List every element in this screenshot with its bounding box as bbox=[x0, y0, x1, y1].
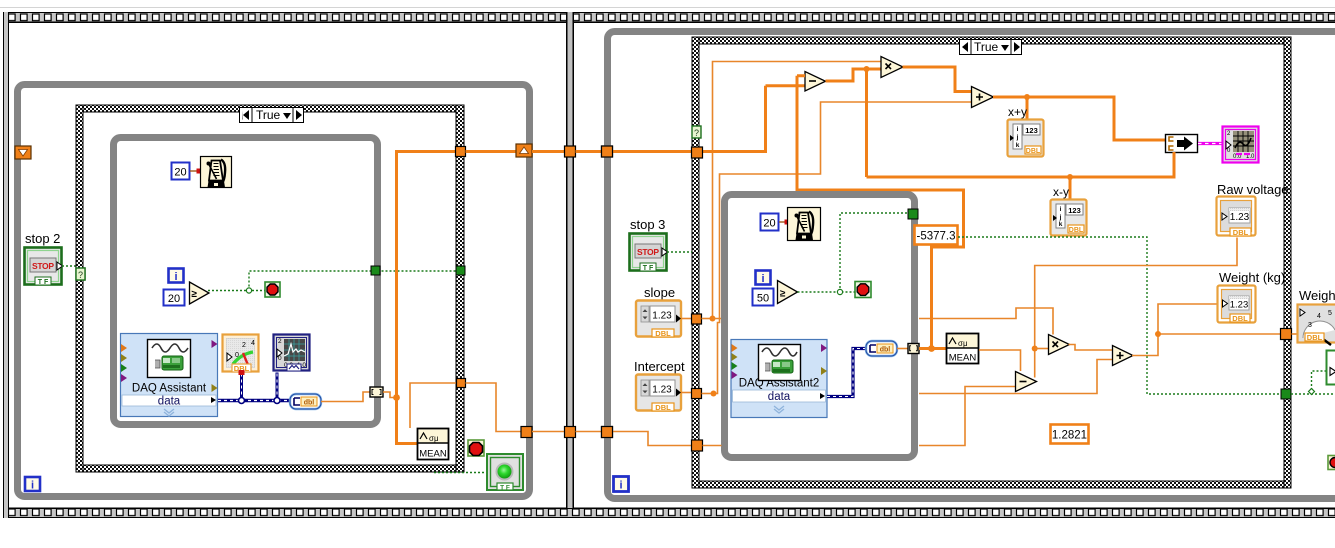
indexing tunnel on inner loop 1 bbox=[370, 387, 383, 397]
W1 wire from left frame into subtract2 bbox=[919, 387, 1015, 446]
svg-text:50: 50 bbox=[757, 293, 769, 305]
svg-text:i: i bbox=[31, 480, 34, 492]
junction dot MEAN2 input bbox=[928, 345, 935, 352]
add node 1 bbox=[972, 87, 994, 108]
svg-text:2: 2 bbox=[278, 338, 282, 345]
svg-text:Intercept: Intercept bbox=[634, 359, 685, 374]
XY graph terminal bbox=[1223, 127, 1259, 163]
case selector ? terminal (left case) bbox=[76, 268, 85, 280]
svg-text:0: 0 bbox=[278, 355, 282, 362]
svg-text:DBL: DBL bbox=[655, 403, 671, 412]
wire pill to indexing tunnel (loop 2) bbox=[897, 348, 908, 350]
svg-text:i: i bbox=[1017, 126, 1019, 133]
-5377.3 constant bbox=[915, 226, 958, 245]
wait ms metronome icon (loop 1) bbox=[201, 157, 232, 188]
Intercept wire to junction bbox=[702, 393, 714, 395]
wire down to x+y bbox=[1026, 97, 1029, 119]
conditional (stop) terminal loop 2 bbox=[855, 282, 871, 298]
flat sequence bottom film strip bbox=[8, 508, 1335, 519]
junction dot at 1070,177 and drop to x-y bbox=[1067, 174, 1073, 180]
x-y array indicator bbox=[1051, 200, 1087, 236]
constant 20 (wait ms, loop 1) bbox=[172, 163, 190, 180]
stop 2 button bbox=[25, 248, 63, 287]
svg-text:DBL: DBL bbox=[1233, 228, 1249, 237]
constant 20 (compare, loop 1) bbox=[164, 290, 185, 306]
slope junction dot bbox=[710, 316, 716, 322]
add node 2 bbox=[1113, 346, 1134, 366]
Weight gauge terminal (clipped at edge) bbox=[1298, 305, 1335, 346]
boolean dotted from -5377.3 across and down bbox=[958, 237, 1281, 394]
svg-text:DAQ Assistant: DAQ Assistant bbox=[132, 383, 207, 395]
orange wire pill to indexing tunnel (loop 1) bbox=[321, 392, 370, 402]
conditional (stop) terminal loop 1 bbox=[265, 282, 280, 297]
svg-text:DBL: DBL bbox=[1232, 314, 1248, 323]
svg-text:5: 5 bbox=[1328, 310, 1332, 317]
add1 output wire to merge bbox=[993, 97, 1165, 140]
svg-text:σμ: σμ bbox=[429, 434, 439, 443]
svg-text:T F: T F bbox=[38, 279, 49, 286]
svg-text:1.23: 1.23 bbox=[652, 311, 672, 322]
MEAN statistics VI (frame 2) bbox=[947, 334, 979, 364]
wire 20 to metronome bbox=[190, 170, 200, 172]
W1 wire case tunnel to behind loop bbox=[703, 445, 722, 447]
junction dot add2 output bbox=[1155, 331, 1161, 337]
svg-text:4: 4 bbox=[1317, 313, 1321, 320]
svg-text:?: ? bbox=[78, 270, 83, 280]
subtract node 2 bbox=[1016, 372, 1037, 392]
multiply2 output to add2 bbox=[1069, 345, 1113, 351]
constant 20 (wait ms, loop 2) bbox=[761, 214, 779, 231]
svg-text:?: ? bbox=[694, 128, 699, 138]
indexing tunnel on inner loop 2 bbox=[908, 344, 919, 354]
wait ms metronome icon (loop 2) bbox=[788, 208, 821, 241]
svg-text:STOP: STOP bbox=[32, 261, 54, 271]
tunnel on right while loop border (top wire) bbox=[602, 146, 613, 157]
wire stop3 to case 2 bbox=[667, 251, 692, 253]
case 2 selector label "True" bbox=[960, 40, 1022, 55]
svg-text:T F: T F bbox=[500, 485, 510, 492]
wire right loop to case 2 bbox=[613, 150, 693, 153]
svg-text:2: 2 bbox=[242, 342, 246, 349]
dynamic data wire (loop 2) bbox=[827, 349, 866, 397]
orange tunnel on loop 1 right border (mean) bbox=[521, 427, 532, 438]
add2 output to Weight kg and tunnel bbox=[1132, 304, 1281, 356]
svg-text:DBL: DBL bbox=[1069, 227, 1084, 234]
svg-text:x-y: x-y bbox=[1053, 185, 1069, 199]
svg-text:T F: T F bbox=[643, 265, 654, 272]
case structure 2 border (checkered) bbox=[692, 37, 1291, 488]
wire shift register to divider bbox=[532, 150, 565, 153]
MEAN2 output to subtract2 bbox=[979, 350, 1021, 371]
flat sequence top film strip bbox=[8, 12, 1335, 23]
boolean tunnel on inner loop 1 border bbox=[371, 266, 380, 275]
svg-text:≥: ≥ bbox=[780, 289, 786, 300]
svg-text:dbl: dbl bbox=[880, 347, 891, 354]
svg-text:dbl: dbl bbox=[304, 400, 315, 407]
junction dot on subtract1 output bbox=[864, 66, 870, 72]
main array wire up to shift register (frame 1) bbox=[397, 152, 457, 398]
top hairline bbox=[0, 7, 1335, 8]
svg-text:4: 4 bbox=[251, 340, 255, 347]
flat sequence frame divider bbox=[566, 12, 574, 508]
svg-text:k: k bbox=[1016, 142, 1020, 149]
svg-text:DBL: DBL bbox=[655, 329, 671, 338]
stop octagon terminal at right edge (clipped) bbox=[1328, 456, 1335, 470]
svg-text:≥: ≥ bbox=[192, 289, 198, 300]
slope wire behind inner loop to multiply 2 bbox=[713, 308, 1054, 335]
iteration terminal i (inner loop 2) bbox=[756, 271, 771, 286]
svg-text:MEAN: MEAN bbox=[419, 449, 447, 460]
svg-text:1.2821: 1.2821 bbox=[1052, 430, 1087, 442]
inner while loop 2 border bbox=[725, 195, 915, 458]
svg-text:DBL: DBL bbox=[1026, 148, 1041, 155]
while loop 2 border bbox=[608, 32, 1335, 499]
merge signals node bbox=[1166, 135, 1198, 153]
thin wire MEAN top to case tunnel (frame 1) bbox=[410, 383, 457, 428]
wire divider to right loop bbox=[576, 150, 603, 153]
svg-text:Weight (kg): Weight (kg) bbox=[1219, 270, 1285, 285]
wire tunnel to MEAN2 bbox=[919, 347, 946, 350]
svg-text:DBL: DBL bbox=[1307, 333, 1323, 342]
Intercept wire to tunnel bbox=[681, 392, 692, 394]
svg-text:j: j bbox=[1016, 134, 1019, 141]
svg-text:3: 3 bbox=[1308, 322, 1312, 329]
wire case tunnel to shift register bbox=[466, 150, 517, 153]
wire stop2 to ? bbox=[62, 265, 76, 267]
orange tunnel case1 right (mean out) bbox=[457, 379, 466, 388]
MEAN statistics VI (frame 1) bbox=[418, 429, 449, 460]
DAQ Assistant express VI (loop 1) bbox=[121, 334, 218, 417]
svg-text:Weight: Weight bbox=[1299, 288, 1335, 303]
subtract2 output riser to junction and Raw voltage bbox=[1035, 238, 1237, 378]
junction dot to x+y bbox=[1024, 94, 1030, 100]
dynamic data wire (loop 1) bbox=[218, 370, 290, 404]
junction dot (frame 1) bbox=[393, 394, 400, 401]
svg-text:i: i bbox=[174, 271, 177, 283]
svg-text:20: 20 bbox=[763, 218, 775, 230]
wire tunnel to junction (frame 1) bbox=[383, 392, 397, 398]
boolean dotted wire to TF LED (frame 1) bbox=[434, 472, 487, 474]
orange tunnel on case2 right (weight) bbox=[1281, 329, 1292, 340]
svg-text:σμ: σμ bbox=[958, 339, 968, 348]
svg-text:1.23: 1.23 bbox=[1230, 300, 1249, 311]
multiply node 2 bbox=[1049, 335, 1070, 355]
shift register right terminal (up arrow) bbox=[516, 144, 532, 157]
wire to loop 1 border tunnel bbox=[466, 383, 522, 432]
while loop 1 border bbox=[18, 85, 530, 497]
iteration terminal i (loop 1) bbox=[25, 477, 40, 492]
svg-text:stop 3: stop 3 bbox=[630, 217, 665, 232]
svg-text:k: k bbox=[1059, 221, 1063, 228]
wire loop1 to divider (mean) bbox=[532, 431, 565, 433]
sequence tunnel on divider (top wire) bbox=[565, 146, 576, 157]
svg-text:1.23: 1.23 bbox=[652, 385, 672, 396]
inner while loop 1 border bbox=[114, 138, 378, 425]
greater-or-equal node (loop 1) bbox=[190, 282, 210, 304]
thick wire up from MEAN2 junction (P1) bbox=[932, 189, 964, 349]
thick wire y177 across (x-y feed) bbox=[867, 152, 1175, 177]
wire down to MEAN (frame 1) bbox=[397, 398, 418, 444]
subtract node 1 bbox=[805, 72, 826, 92]
svg-text:data: data bbox=[158, 396, 181, 408]
svg-text:i: i bbox=[1060, 206, 1062, 213]
green tunnel on case2 right (boolean out) bbox=[1281, 389, 1291, 399]
svg-text:20: 20 bbox=[174, 167, 186, 179]
convert from dynamic data (loop 1) bbox=[290, 394, 321, 409]
multiply node 1 bbox=[881, 57, 903, 78]
stop 3 button bbox=[630, 234, 668, 273]
thick wire y190 to subtract1 top input riser bbox=[797, 76, 964, 192]
svg-text:20: 20 bbox=[168, 293, 180, 305]
tunnel overdraw on right loop border (bottom wire) bbox=[602, 427, 613, 438]
flat sequence left edge bbox=[3, 12, 9, 518]
Intercept control bbox=[636, 375, 681, 413]
case 1 selector label "True" bbox=[240, 108, 304, 123]
svg-text:j: j bbox=[1059, 214, 1062, 221]
boolean dotted wire (loop 2) bbox=[798, 291, 856, 293]
tunnel overdraw on right loop border (top wire) bbox=[602, 146, 613, 157]
junction dot subtract2 output bbox=[1032, 346, 1038, 352]
slope control bbox=[636, 301, 681, 339]
svg-text:x+y: x+y bbox=[1008, 105, 1027, 119]
wire tunnel to gauge bbox=[1292, 333, 1299, 335]
thick V wire into case2 up to subtract 1 bbox=[702, 86, 805, 153]
greater-or-equal node (loop 2) bbox=[778, 281, 798, 304]
wire divider to right loop (mean) bbox=[576, 431, 603, 433]
svg-text:True: True bbox=[974, 40, 999, 54]
case selector ? terminal left (overdraw) bbox=[76, 268, 85, 280]
waveform chart terminal (loop 1) bbox=[274, 335, 310, 372]
boolean stop control at right edge (clipped) bbox=[1327, 351, 1335, 385]
svg-text:slope: slope bbox=[644, 285, 675, 300]
svg-text:Raw voltage: Raw voltage bbox=[1217, 182, 1289, 197]
Intercept wire behind inner loop to add 2 bbox=[919, 360, 1112, 394]
svg-text:data: data bbox=[768, 391, 791, 403]
1.2821 constant bbox=[1051, 425, 1089, 444]
wire junction to multiply2 bbox=[1035, 348, 1049, 350]
slope tunnel on case 2 bbox=[692, 314, 702, 324]
boolean dotted wire to conditional terminal (loop 1) bbox=[208, 290, 265, 292]
svg-text:True: True bbox=[256, 108, 281, 122]
multiply1 output to add1 bbox=[903, 67, 973, 92]
slope wire to junction bbox=[702, 318, 713, 320]
TF LED indicator (frame 1) bbox=[487, 454, 523, 492]
iteration terminal i (inner loop 1) bbox=[169, 269, 184, 284]
boolean tunnel on case 1 border bbox=[456, 266, 465, 275]
svg-text:123: 123 bbox=[1025, 126, 1038, 135]
dynamic wire merge to XY graph (pink dashed) bbox=[1198, 142, 1222, 145]
boolean tunnel on inner loop 2 border bbox=[908, 209, 918, 219]
constant 50 (inner loop 2) bbox=[753, 289, 774, 306]
svg-text:STOP: STOP bbox=[637, 247, 659, 257]
x+y array indicator bbox=[1008, 120, 1044, 157]
case selector ? terminal (case 2) bbox=[692, 126, 701, 138]
Raw voltage indicator bbox=[1217, 197, 1256, 238]
tunnel on case2 left (W1 wire) bbox=[692, 440, 703, 451]
Intercept tunnel on case 2 bbox=[692, 389, 702, 399]
tunnel on case2 left (V wire) bbox=[692, 147, 703, 158]
meter indicator terminal (loop 1) bbox=[223, 335, 259, 374]
svg-text:1.23: 1.23 bbox=[1230, 212, 1250, 223]
svg-text:i: i bbox=[761, 273, 764, 285]
svg-text:MEAN: MEAN bbox=[949, 353, 977, 364]
DAQ Assistant2 express VI bbox=[731, 340, 827, 418]
shift register left terminal (down arrow) bbox=[15, 146, 31, 159]
thick wire down from junction bbox=[865, 69, 868, 177]
slope wire to tunnel bbox=[681, 318, 692, 320]
iteration terminal i (loop 2) bbox=[614, 477, 629, 492]
wire right loop to case2 (mean, steps down) bbox=[613, 432, 693, 446]
Weight (kg) indicator bbox=[1218, 286, 1256, 324]
wire 20 to metronome 2 bbox=[779, 221, 788, 223]
tunnel on right loop border (bottom wire) bbox=[602, 427, 613, 438]
subtract1 output wire to multiply1 bbox=[826, 69, 882, 81]
Intercept junction dot bbox=[711, 391, 717, 397]
convert from dynamic data (loop 2) bbox=[866, 341, 897, 356]
svg-text:stop 2: stop 2 bbox=[25, 231, 60, 246]
slope wire up and across top bbox=[713, 62, 886, 319]
svg-text:123: 123 bbox=[1068, 206, 1081, 215]
svg-text:i: i bbox=[619, 480, 622, 492]
Intercept wire up over inner loop and to add 1 bbox=[714, 102, 974, 394]
case structure 1 border (checkered) bbox=[76, 105, 464, 472]
stop octagon terminal (frame 1) bbox=[468, 440, 484, 456]
orange tunnel on case 1 right border (array) bbox=[456, 147, 466, 157]
sequence tunnel on divider (bottom wire) bbox=[565, 427, 576, 438]
svg-text:-5377.3: -5377.3 bbox=[916, 231, 955, 243]
dotted boolean outside case to stop control and edge bbox=[1291, 371, 1335, 394]
